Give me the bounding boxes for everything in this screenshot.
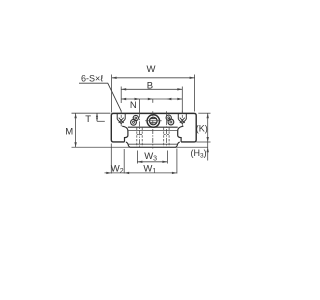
dimension W3 [137,151,167,164]
ball row right upper [166,115,171,120]
rail hole right [164,111,169,147]
svg-text:(H3): (H3) [191,148,207,160]
ball row right lower [168,119,174,125]
mounting surface extension line [72,146,208,148]
dimension (H3) [191,147,209,159]
tap hole S×ℓ left [117,111,125,127]
seal bottom edge line [128,126,178,128]
svg-text:(K): (K) [196,123,208,133]
dimension (K) [196,113,211,160]
center line [152,111,154,148]
dimension M [65,113,110,147]
rail lower side right [176,142,180,147]
callout 6-S×ℓ [79,74,121,112]
svg-text:W2: W2 [111,164,124,176]
rail hole left [137,113,142,148]
block leg inner profile left [122,126,128,142]
block leg inner profile right [178,126,184,142]
dimension row N / hole chain [121,98,182,113]
svg-text:N: N [130,100,137,111]
dimension B [121,81,182,113]
rail top line [128,130,177,132]
svg-text:B: B [147,81,153,92]
svg-text:W3: W3 [144,151,157,163]
block outline [111,113,196,142]
dimension W1 [105,149,177,176]
ball row left lower [131,119,137,125]
dimension W2 [111,144,124,176]
dimension T [85,113,105,125]
tap hole S×ℓ right [178,111,186,127]
dimension W [112,64,195,112]
ball row left upper [133,115,138,120]
rail lower chamfer line [128,143,177,145]
svg-text:T: T [85,114,91,125]
rail lower side left [126,142,130,147]
svg-text:W1: W1 [143,164,156,176]
svg-text:M: M [65,127,73,138]
rail bottom line [130,146,177,148]
svg-text:6-S×ℓ: 6-S×ℓ [81,74,104,84]
grease nipple [145,115,161,127]
svg-text:W: W [147,64,156,75]
